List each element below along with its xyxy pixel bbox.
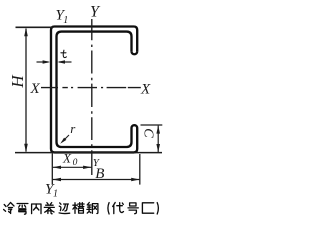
svg-text:1: 1 <box>63 15 68 26</box>
svg-text:X: X <box>30 81 41 97</box>
svg-text:1: 1 <box>53 189 58 200</box>
svg-text:0: 0 <box>73 158 78 168</box>
svg-text:X: X <box>140 82 151 98</box>
svg-text:X: X <box>62 151 72 166</box>
svg-text:C: C <box>141 128 156 138</box>
svg-text:H: H <box>8 74 27 89</box>
